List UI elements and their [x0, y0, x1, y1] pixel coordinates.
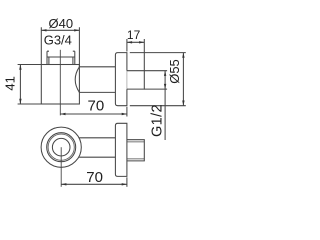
- dim Ø40 line: [41, 29, 79, 31]
- G1/2 stub (top view): [127, 71, 144, 89]
- arrow G1/2 top: [164, 71, 166, 76]
- nut ring outer: [47, 133, 76, 162]
- outer circle (bottom view): [41, 127, 81, 167]
- dim Ø55 line: [182, 53, 184, 106]
- svg-text:Ø55: Ø55: [167, 59, 182, 84]
- G3/4 nipple: [47, 51, 75, 64]
- dim 17 line: [127, 41, 144, 43]
- arrow 70 top right: [122, 113, 127, 115]
- pipe top edge: [79, 66, 115, 68]
- dim 41 extension lines: [18, 65, 43, 105]
- arrow Ø55 top: [182, 53, 184, 58]
- dim 70 bottom line: [61, 183, 127, 185]
- dim 70 top line: [60, 113, 127, 115]
- pipe bottom edge: [79, 91, 115, 93]
- svg-text:70: 70: [86, 169, 103, 186]
- stub thread lines (bottom view): [127, 142, 144, 159]
- arrow 41 top: [19, 65, 21, 70]
- flange edge behind stub (faint): [126, 71, 128, 89]
- wall flange (bottom view): [115, 123, 127, 176]
- wall flange (top view): [115, 53, 127, 106]
- dim Ø55 extension lines: [130, 53, 186, 106]
- arrow 70 top left: [60, 113, 65, 115]
- vertical centerline: [59, 50, 61, 116]
- pipe edges (bottom view): [79, 138, 115, 157]
- dim G1/2 extension lines: [144, 71, 167, 89]
- dim 70 top right extension: [126, 107, 128, 117]
- arrow Ø40 left: [41, 29, 46, 31]
- svg-text:Ø40: Ø40: [49, 16, 74, 31]
- svg-text:70: 70: [88, 97, 105, 114]
- arrow 41 bottom: [19, 99, 21, 104]
- arrow 17 left: [127, 41, 132, 43]
- bottom view centerline: [60, 147, 62, 187]
- dim 41 line: [19, 65, 21, 105]
- arrow Ø55 bottom: [182, 101, 184, 106]
- svg-text:G3/4: G3/4: [44, 33, 72, 48]
- arrow 70 bottom right: [122, 183, 127, 185]
- body arc bulge: [75, 67, 79, 93]
- arrow Ø40 right: [74, 29, 79, 31]
- arrow 17 right: [139, 41, 144, 43]
- nut ring inner: [48, 134, 74, 160]
- svg-text:G1/2: G1/2: [150, 104, 166, 137]
- G1/2 stub (bottom view): [127, 140, 144, 161]
- bore circle: [52, 138, 70, 156]
- svg-text:41: 41: [3, 76, 18, 90]
- svg-text:17: 17: [127, 28, 141, 42]
- arrow G1/2 bottom: [164, 84, 166, 89]
- dim 70 bottom right extension: [126, 177, 128, 187]
- arrow 70 bottom left: [61, 183, 66, 185]
- escutcheon body (top view): [41, 65, 79, 105]
- dim G1/2 line: [164, 71, 166, 140]
- dim 17 extension lines: [127, 39, 144, 71]
- dim Ø40 extension lines: [41, 27, 79, 67]
